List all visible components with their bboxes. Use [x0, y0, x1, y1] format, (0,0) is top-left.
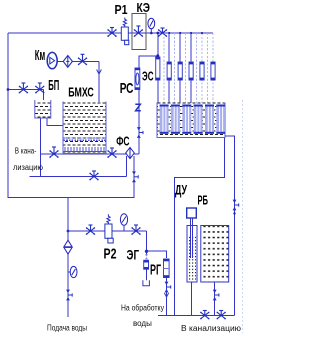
comb band: [64, 147, 106, 152]
tank BMHS: [63, 102, 106, 154]
wire bath drain B: [175, 138, 225, 316]
svg-text:РС: РС: [120, 80, 134, 97]
wire KE drop: [157, 33, 159, 56]
valve collector 2: [217, 311, 225, 319]
cell riser wires (manifold drops): [158, 33, 213, 135]
svg-text:ДУ: ДУ: [175, 182, 187, 198]
column EG: [144, 260, 149, 280]
air arrow: [97, 70, 102, 75]
svg-text:ФС: ФС: [116, 134, 130, 149]
valve bottom pipe 1: [87, 225, 95, 234]
valve drain2: [90, 171, 98, 180]
svg-text:ЭГ: ЭГ: [127, 247, 140, 263]
wire BP to BMHS connector: [47, 118, 64, 126]
wire RS top branch: [138, 55, 158, 57]
wire bottom collector: [158, 315, 235, 317]
svg-text:КЭ: КЭ: [137, 0, 151, 15]
valve return riser: [132, 171, 136, 182]
node gauge junction: [150, 32, 153, 35]
valve RB drain: [213, 290, 217, 301]
check valve diamond (air): [63, 56, 72, 68]
tank RB: [201, 226, 229, 283]
svg-text:Р1: Р1: [115, 2, 128, 17]
rotameter RS: [135, 68, 140, 90]
wire RB drain: [214, 282, 216, 316]
flow break symbol: [135, 104, 141, 111]
svg-text:РБ: РБ: [198, 193, 209, 208]
valve RS riser: [137, 127, 141, 138]
decorative faint fold line: [242, 100, 244, 333]
valve top line 2: [159, 28, 167, 36]
regulator R2: [105, 214, 113, 243]
wire bottom return pipe: [8, 197, 134, 199]
node manifold junctions: [168, 32, 203, 34]
column RG: [164, 259, 170, 278]
svg-text:БП: БП: [48, 77, 59, 94]
valve air: [79, 54, 87, 64]
node supply tee junction: [67, 230, 70, 233]
wire drain pipe 2: [30, 176, 127, 178]
valve drain1 left: [50, 147, 58, 157]
wire riser under FS left: [125, 156, 127, 177]
wire bottom distribution pipe: [68, 230, 147, 232]
wire EG riser: [146, 231, 148, 256]
valve EG riser: [145, 250, 148, 253]
valve BP 1: [20, 83, 28, 93]
svg-text:Км: Км: [35, 47, 45, 64]
wire BP drain: [40, 118, 42, 177]
drain cup under EG: [143, 280, 150, 286]
valve RG: [165, 282, 169, 293]
gauge R2: [120, 214, 127, 231]
node RS branch junction: [156, 54, 159, 57]
svg-text:В канализацию: В канализацию: [181, 324, 241, 333]
wire RS riser: [138, 56, 140, 154]
node KE drop junction: [156, 32, 159, 35]
wire top supply pipe: [8, 32, 213, 34]
wire supply riser x68: [67, 198, 69, 318]
svg-text:В кана-: В кана-: [15, 147, 37, 156]
wire BP feed pipe: [8, 89, 44, 91]
valve before FS: [108, 148, 116, 157]
valve bottom pipe 2: [132, 225, 140, 234]
electrolyzer bath: [157, 103, 225, 138]
svg-text:РГ: РГ: [150, 262, 161, 279]
wire drain pipe 1: [41, 153, 127, 155]
perforated plate band: [64, 138, 106, 140]
solenoid valve KE: [135, 26, 143, 36]
node BP feed junction: [7, 88, 10, 91]
filter FS: [126, 147, 135, 158]
svg-text:ЭС: ЭС: [142, 69, 154, 84]
electrodes ES: [160, 105, 225, 134]
svg-text:лизацию: лизацию: [13, 163, 43, 172]
apparatus DU: [187, 208, 197, 282]
svg-text:На обработку: На обработку: [121, 304, 164, 313]
valve supply: [66, 290, 70, 301]
valve collector 1: [201, 311, 209, 319]
compressor Km: [47, 52, 57, 68]
svg-text:Р2: Р2: [104, 246, 117, 263]
valve top line 1: [108, 28, 116, 37]
tank BP: [35, 100, 51, 118]
regulator R1: [121, 18, 129, 45]
svg-text:Подача воды: Подача воды: [47, 324, 87, 333]
box KE: [132, 14, 146, 50]
wire bath drain A: [225, 136, 235, 316]
svg-text:воды: воды: [133, 319, 152, 328]
wire riser from return pipe to FS: [133, 156, 135, 198]
wire RG drain: [166, 278, 168, 316]
arrow RG down: [164, 293, 168, 297]
wire left riser: [7, 33, 9, 198]
filter supply diamond: [64, 240, 73, 254]
gauge supply: [68, 266, 77, 277]
gauge KE: [148, 18, 155, 33]
valve bath drain A: [233, 200, 237, 211]
wire DU drain: [191, 282, 193, 316]
wire air line: [57, 60, 100, 62]
cell rotameters ES row: [156, 57, 215, 80]
valve BP 2: [36, 83, 44, 93]
wire RG branch: [147, 251, 167, 258]
svg-text:БМХС: БМХС: [68, 86, 94, 100]
